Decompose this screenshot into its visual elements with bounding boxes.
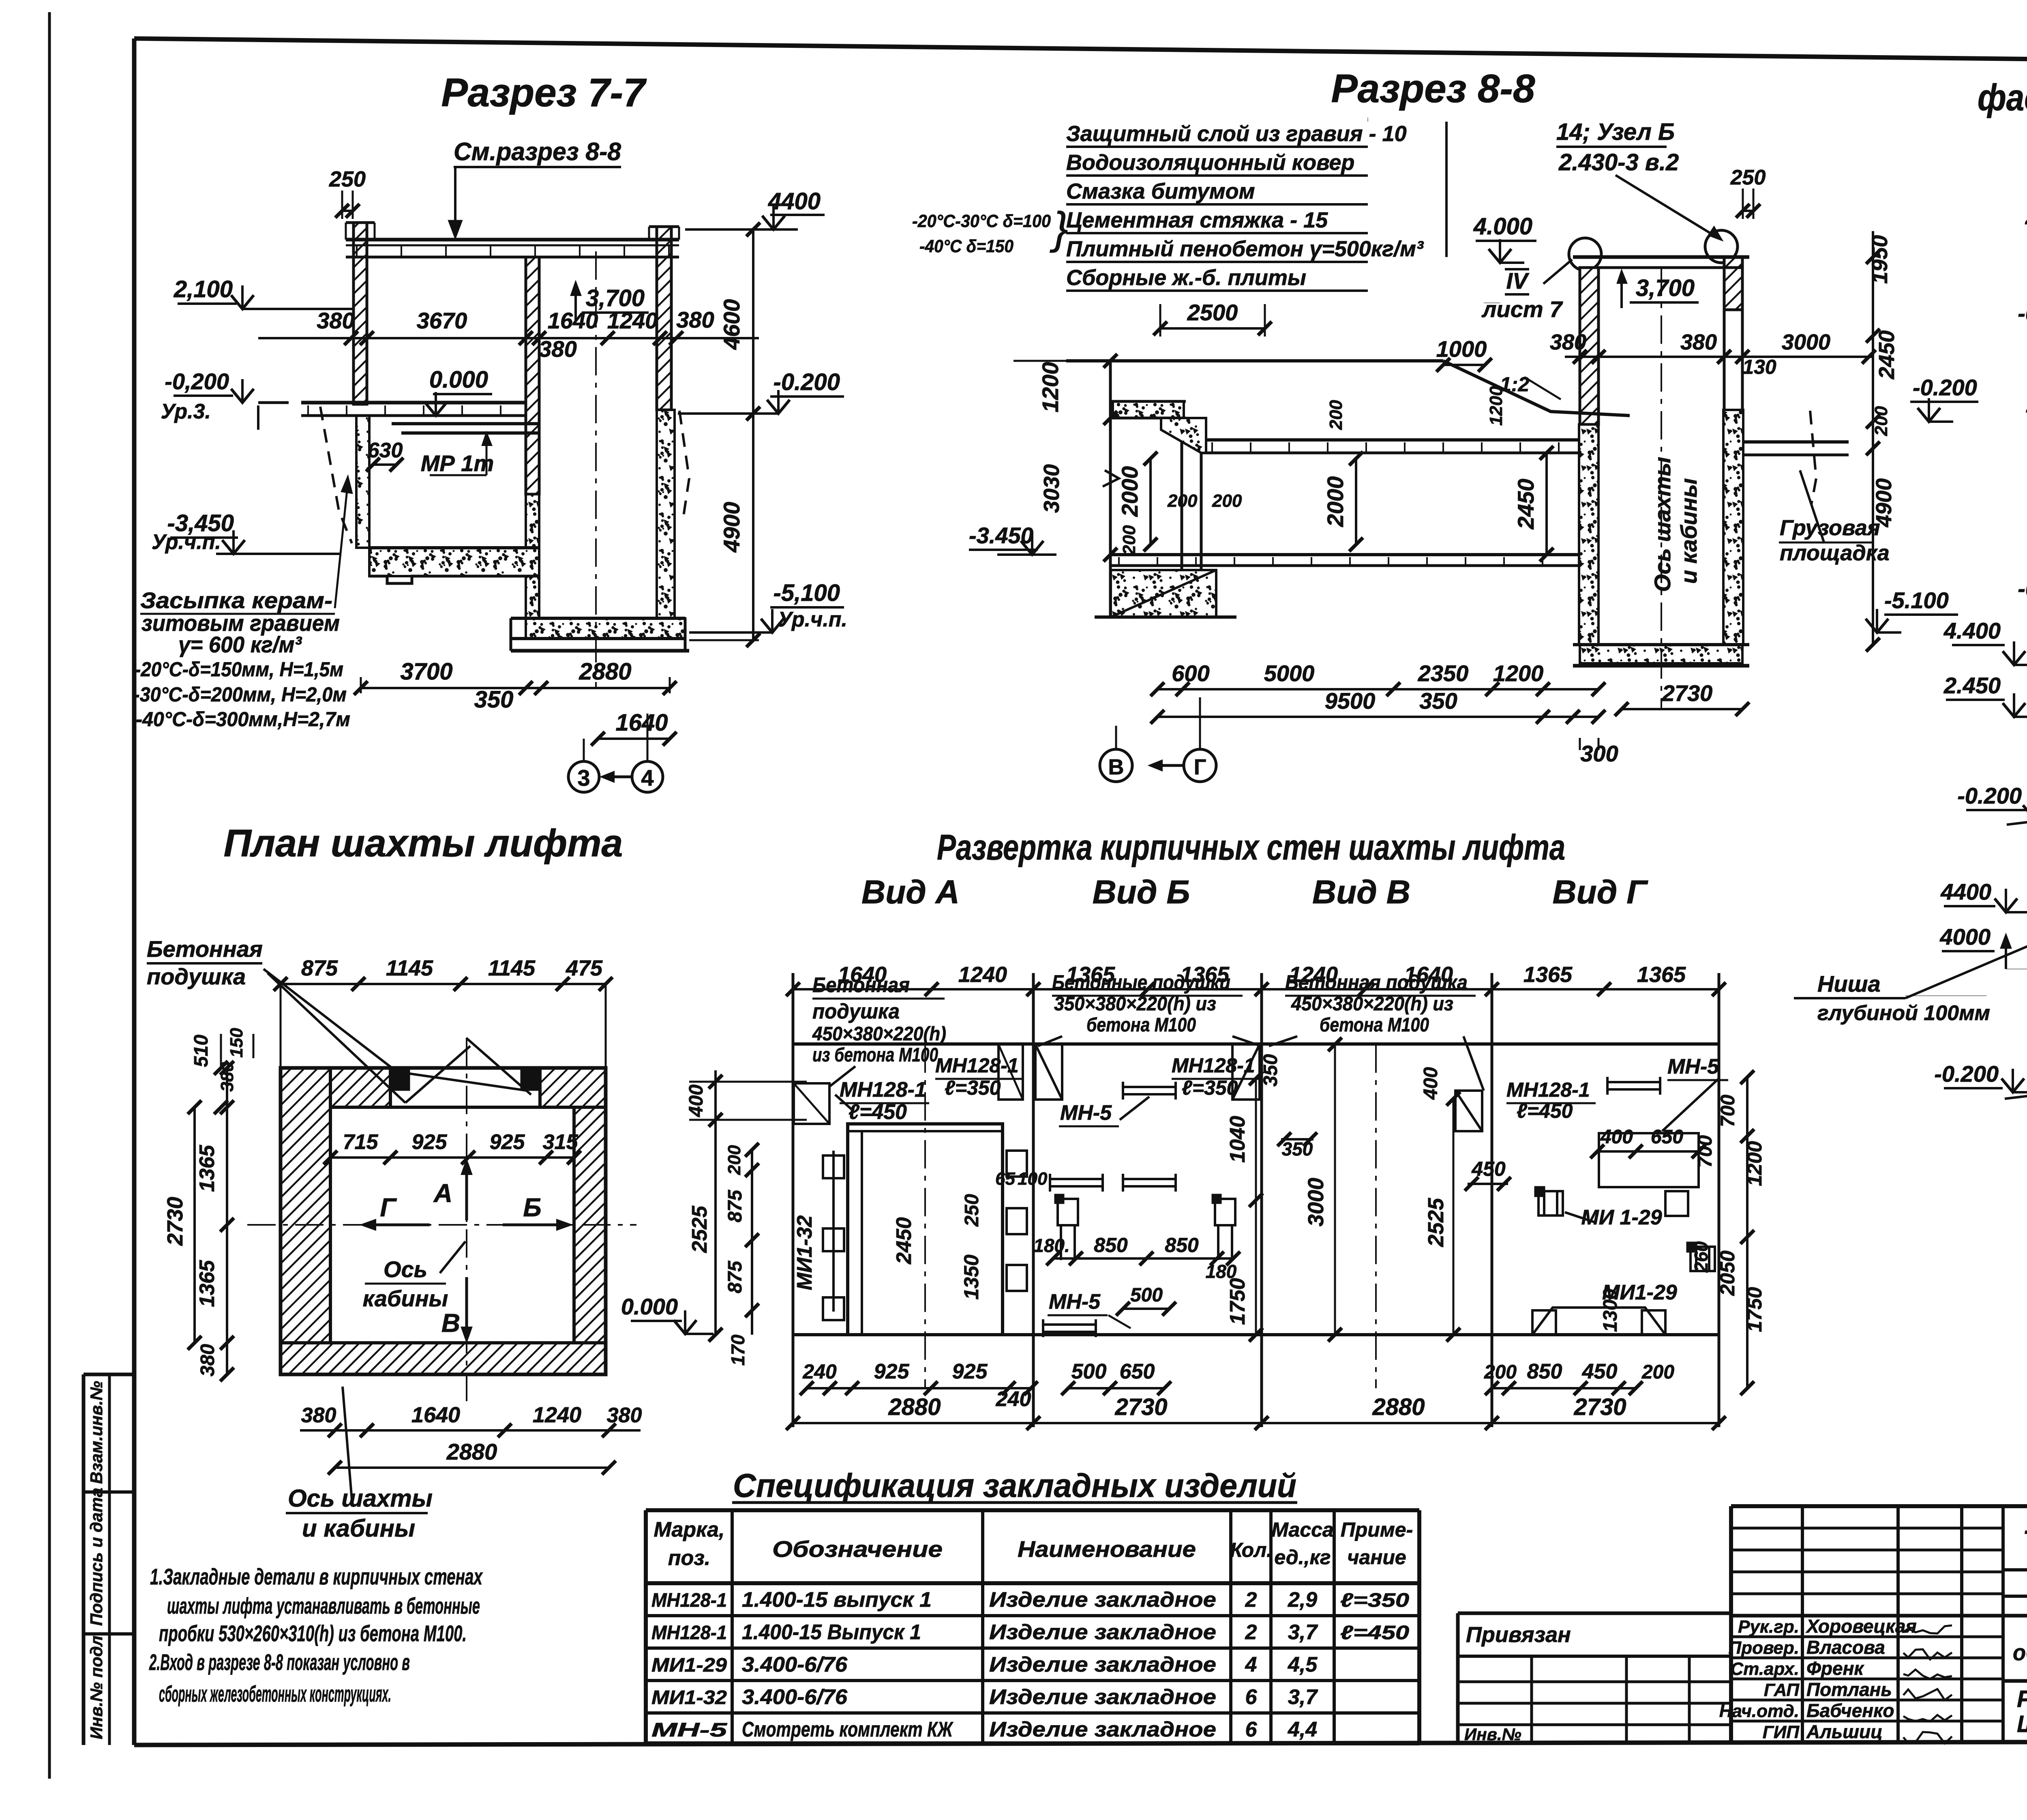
svg-text:200: 200 <box>1212 491 1242 511</box>
svg-text:380: 380 <box>607 1404 642 1427</box>
svg-text:4000: 4000 <box>1939 924 1991 950</box>
svg-text:Взам.инв.№: Взам.инв.№ <box>87 1381 106 1484</box>
svg-text:2730: 2730 <box>1573 1394 1626 1420</box>
svg-text:Хоровецкая: Хоровецкая <box>1805 1616 1917 1637</box>
svg-text:600: 600 <box>1172 660 1209 686</box>
svg-text:130: 130 <box>1742 356 1776 378</box>
svg-text:5000: 5000 <box>1264 660 1315 686</box>
svg-text:380: 380 <box>1550 330 1586 354</box>
svg-text:400: 400 <box>686 1085 707 1117</box>
svg-text:4,4: 4,4 <box>1288 1718 1317 1741</box>
svg-text:-5,100: -5,100 <box>774 580 840 606</box>
svg-text:450×380×220(h) из: 450×380×220(h) из <box>1291 993 1453 1015</box>
svg-text:1640: 1640 <box>615 710 668 736</box>
svg-text:1.Закладные детали в кирпичных: 1.Закладные детали в кирпичных стенах <box>150 1564 483 1589</box>
svg-text:1040: 1040 <box>1226 1116 1249 1163</box>
svg-text:200: 200 <box>1167 491 1198 511</box>
svg-text:2880: 2880 <box>579 658 631 685</box>
svg-text:1365: 1365 <box>195 1260 219 1307</box>
svg-text:1640: 1640 <box>838 963 887 987</box>
svg-text:6: 6 <box>1245 1685 1258 1709</box>
svg-text:2: 2 <box>1245 1621 1257 1644</box>
svg-text:Разрезы 7-7,8-8.: Разрезы 7-7,8-8. <box>2017 1686 2027 1712</box>
svg-text:2350: 2350 <box>1418 660 1469 686</box>
svg-text:Ур.ч.п.: Ур.ч.п. <box>152 530 221 554</box>
svg-text:Разрез 7-7: Разрез 7-7 <box>441 70 647 115</box>
svg-text:200: 200 <box>1119 525 1139 555</box>
svg-text:1.400-15 Выпуск 1: 1.400-15 Выпуск 1 <box>742 1621 921 1644</box>
svg-text:ℓ=450: ℓ=450 <box>1340 1622 1409 1644</box>
svg-text:380: 380 <box>317 308 354 333</box>
svg-text:4400: 4400 <box>768 188 821 214</box>
svg-text:ℓ=450: ℓ=450 <box>1517 1100 1573 1122</box>
svg-text:МН128-1: МН128-1 <box>1506 1078 1590 1101</box>
svg-text:подушка: подушка <box>812 1000 900 1023</box>
svg-text:2: 2 <box>1245 1588 1257 1612</box>
svg-text:1145: 1145 <box>386 956 433 980</box>
svg-text:4,5: 4,5 <box>1288 1653 1318 1676</box>
svg-text:2.100: 2.100 <box>2025 204 2027 229</box>
svg-text:3.400-6/76: 3.400-6/76 <box>742 1653 848 1676</box>
svg-text:0.000: 0.000 <box>429 367 488 393</box>
svg-text:6: 6 <box>1245 1718 1258 1741</box>
svg-text:2730: 2730 <box>163 1197 187 1246</box>
svg-text:Привязан: Привязан <box>1466 1623 1571 1647</box>
svg-text:925: 925 <box>490 1130 525 1154</box>
svg-text:200: 200 <box>1484 1361 1517 1383</box>
svg-text:200: 200 <box>1871 406 1891 436</box>
svg-text:МН128-1: МН128-1 <box>935 1054 1019 1077</box>
svg-text:700: 700 <box>1717 1095 1739 1127</box>
svg-text:3,700: 3,700 <box>1636 275 1695 301</box>
svg-text:МР 1т: МР 1т <box>421 450 494 476</box>
svg-text:875: 875 <box>724 1260 746 1293</box>
svg-text:150: 150 <box>227 1028 246 1058</box>
svg-text:2050: 2050 <box>1716 1250 1739 1296</box>
svg-text:Инв.№: Инв.№ <box>1464 1725 1521 1744</box>
svg-text:МН-5: МН-5 <box>651 1719 728 1741</box>
svg-text:ℓ=350: ℓ=350 <box>1182 1076 1238 1099</box>
svg-text:200: 200 <box>724 1145 744 1175</box>
svg-text:Смазка битумом: Смазка битумом <box>1066 179 1255 204</box>
svg-text:4900: 4900 <box>1872 478 1896 527</box>
svg-text:МН-5: МН-5 <box>1049 1290 1101 1314</box>
svg-text:-5.100: -5.100 <box>1884 587 1949 613</box>
svg-text:1300: 1300 <box>1600 1288 1621 1332</box>
svg-text:2450: 2450 <box>1513 479 1538 530</box>
svg-text:-0.200: -0.200 <box>1913 375 1977 400</box>
svg-text:-0.200: -0.200 <box>1957 783 2022 808</box>
svg-text:3: 3 <box>577 765 590 791</box>
svg-text:2880: 2880 <box>1372 1394 1425 1420</box>
svg-text:3000: 3000 <box>1782 330 1830 354</box>
svg-text:250: 250 <box>961 1194 983 1227</box>
svg-text:2525: 2525 <box>688 1205 711 1253</box>
svg-text:Разрез 8-8: Разрез 8-8 <box>1331 66 1535 111</box>
svg-text:14; Узел Б: 14; Узел Б <box>1556 119 1675 145</box>
svg-text:лист 7: лист 7 <box>1481 296 1564 322</box>
svg-text:-0.200: -0.200 <box>774 369 840 395</box>
svg-text:4.400: 4.400 <box>1943 618 2001 643</box>
svg-text:Вид Б: Вид Б <box>1093 874 1190 911</box>
svg-text:3,7: 3,7 <box>1288 1621 1318 1644</box>
svg-text:350×380×220(h) из: 350×380×220(h) из <box>1054 993 1216 1015</box>
svg-text:3670: 3670 <box>417 308 467 333</box>
svg-text:Смотреть комплект КЖ: Смотреть комплект КЖ <box>742 1718 954 1741</box>
svg-text:500: 500 <box>1130 1284 1163 1306</box>
svg-text:МИ 1-29: МИ 1-29 <box>1581 1206 1662 1229</box>
svg-text:Ст.арх.: Ст.арх. <box>1731 1659 1800 1679</box>
svg-text:МИ1-32: МИ1-32 <box>651 1687 727 1709</box>
svg-text:2,100: 2,100 <box>174 276 233 302</box>
svg-text:1950: 1950 <box>1868 235 1892 284</box>
svg-text:450: 450 <box>1582 1360 1618 1383</box>
svg-text:МИ1-32: МИ1-32 <box>793 1215 816 1291</box>
svg-text:2730: 2730 <box>1114 1394 1167 1420</box>
svg-text:3.400-6/76: 3.400-6/76 <box>742 1685 848 1709</box>
svg-text:-0,200: -0,200 <box>2018 300 2027 326</box>
svg-text:чание: чание <box>1347 1546 1406 1569</box>
svg-text:925: 925 <box>874 1360 910 1383</box>
svg-text:МН128-1: МН128-1 <box>1172 1054 1255 1077</box>
svg-text:Провер.: Провер. <box>1729 1638 1799 1658</box>
svg-text:Бетонные подушки: Бетонные подушки <box>1052 971 1230 994</box>
svg-text:2000: 2000 <box>1322 476 1348 527</box>
svg-text:2.Вход в разрезе 8-8 показан у: 2.Вход в разрезе 8-8 показан условно в <box>149 1649 410 1675</box>
svg-text:180.: 180. <box>1033 1235 1070 1256</box>
svg-text:План шахты лифта: План шахты лифта <box>224 822 623 865</box>
svg-text:925: 925 <box>412 1130 448 1154</box>
svg-text:ГАП: ГАП <box>1764 1680 1800 1700</box>
svg-text:-30°C-δ=200мм, H=2,0м: -30°C-δ=200мм, H=2,0м <box>133 683 347 706</box>
svg-text:2450: 2450 <box>1875 330 1899 379</box>
svg-text:250: 250 <box>329 167 366 191</box>
svg-text:4: 4 <box>641 765 654 791</box>
svg-text:Ур.3.: Ур.3. <box>161 400 211 423</box>
svg-text:Потлань: Потлань <box>1806 1679 1892 1700</box>
svg-text:1200: 1200 <box>1486 386 1506 426</box>
svg-text:1365: 1365 <box>1637 963 1686 987</box>
svg-text:650: 650 <box>1120 1360 1155 1383</box>
svg-text:2.430-3 в.2: 2.430-3 в.2 <box>1558 149 1679 176</box>
svg-text:2.450: 2.450 <box>1943 673 2001 698</box>
svg-text:3,7: 3,7 <box>1288 1685 1318 1709</box>
svg-text:и кабины: и кабины <box>1676 478 1701 584</box>
svg-text:Плитный пенобетон γ=500кг/м³: Плитный пенобетон γ=500кг/м³ <box>1066 237 1424 261</box>
svg-text:МН128-1: МН128-1 <box>840 1078 926 1102</box>
svg-text:поз.: поз. <box>668 1546 711 1570</box>
svg-text:-20°C-30°C δ=100: -20°C-30°C δ=100 <box>912 211 1051 231</box>
svg-text:Вид Г: Вид Г <box>1552 874 1648 911</box>
svg-text:-40°C-δ=300мм,H=2,7м: -40°C-δ=300мм,H=2,7м <box>136 708 350 731</box>
svg-text:-20°C-δ=150мм, H=1,5м: -20°C-δ=150мм, H=1,5м <box>135 658 343 681</box>
svg-text:630: 630 <box>368 439 403 462</box>
svg-text:850: 850 <box>1094 1234 1128 1256</box>
svg-text:4.000: 4.000 <box>1473 213 1532 240</box>
svg-text:Изделие закладное: Изделие закладное <box>989 1685 1216 1709</box>
svg-text:Наименование: Наименование <box>1018 1536 1196 1562</box>
svg-text:1200: 1200 <box>1037 362 1063 413</box>
svg-text:875: 875 <box>301 956 338 980</box>
svg-text:4600: 4600 <box>719 299 744 350</box>
svg-text:МИ1-29: МИ1-29 <box>651 1655 727 1676</box>
svg-text:Грузовая: Грузовая <box>1780 516 1880 540</box>
svg-text:Сборные ж.-б. плиты: Сборные ж.-б. плиты <box>1066 266 1306 290</box>
svg-text:850: 850 <box>1165 1234 1199 1256</box>
svg-text:Ось: Ось <box>384 1256 427 1282</box>
svg-text:Обозначение: Обозначение <box>772 1536 943 1562</box>
svg-text:850: 850 <box>1527 1360 1562 1383</box>
svg-text:В: В <box>441 1308 460 1338</box>
svg-text:Развертка кирпичных стен шахты: Развертка кирпичных стен шахты лифта <box>937 827 1565 867</box>
svg-text:315: 315 <box>543 1130 579 1154</box>
svg-text:1350: 1350 <box>960 1254 983 1299</box>
svg-text:ГИП: ГИП <box>1763 1722 1800 1742</box>
svg-text:ТП А-: ТП А- <box>2023 1525 2027 1556</box>
svg-text:ℓ=350: ℓ=350 <box>945 1076 1001 1099</box>
svg-text:4400: 4400 <box>1940 879 1991 905</box>
svg-text:Засыпка керам-: Засыпка керам- <box>140 587 332 613</box>
svg-text:240: 240 <box>996 1387 1031 1411</box>
svg-text:Власова: Власова <box>1806 1637 1885 1658</box>
svg-text:Ниша: Ниша <box>1817 971 1881 997</box>
svg-text:3000: 3000 <box>1304 1178 1328 1226</box>
svg-text:Г: Г <box>380 1193 397 1222</box>
svg-text:сборных железобетонных констру: сборных железобетонных конструкциях. <box>159 1681 391 1706</box>
svg-text:Френк: Френк <box>1806 1658 1864 1679</box>
svg-text:1750: 1750 <box>1743 1287 1766 1332</box>
svg-text:3700: 3700 <box>400 658 452 685</box>
svg-text:650: 650 <box>1651 1126 1683 1148</box>
svg-text:Г: Г <box>1194 755 1206 779</box>
svg-text:А: А <box>433 1179 452 1208</box>
svg-text:Бетонная подушка: Бетонная подушка <box>1285 971 1468 994</box>
svg-text:Рук.гр.: Рук.гр. <box>1738 1617 1799 1637</box>
svg-text:0.000: 0.000 <box>621 1294 678 1319</box>
svg-text:1750: 1750 <box>1226 1278 1249 1325</box>
svg-text:1640: 1640 <box>411 1403 460 1427</box>
svg-text:65: 65 <box>995 1169 1015 1189</box>
svg-text:бетона М100: бетона М100 <box>1086 1014 1196 1036</box>
svg-text:Изделие закладное: Изделие закладное <box>989 1718 1216 1741</box>
svg-text:1.400-15 выпуск 1: 1.400-15 выпуск 1 <box>742 1588 932 1612</box>
svg-text:и кабины: и кабины <box>302 1515 415 1542</box>
svg-text:200: 200 <box>1641 1361 1674 1383</box>
svg-text:1240: 1240 <box>533 1403 581 1427</box>
svg-text:фасады шахты лифта: фасады шахты лифта <box>1978 77 2027 118</box>
svg-text:кабины: кабины <box>363 1286 448 1311</box>
svg-text:МН-5: МН-5 <box>1667 1055 1719 1078</box>
svg-text:Ур.ч.п.: Ур.ч.п. <box>778 608 847 631</box>
svg-text:1200: 1200 <box>1743 1141 1766 1186</box>
svg-text:γ= 600 кг/м³: γ= 600 кг/м³ <box>178 632 302 657</box>
svg-text:700: 700 <box>1695 1135 1716 1168</box>
svg-text:1000: 1000 <box>1436 336 1487 362</box>
svg-text:пробки 530×260×310(h) из бетон: пробки 530×260×310(h) из бетона М100. <box>159 1621 467 1646</box>
svg-text:Шахта лифта.: Шахта лифта. <box>2017 1711 2027 1737</box>
svg-text:510: 510 <box>191 1035 212 1067</box>
svg-text:1640: 1640 <box>548 308 598 333</box>
svg-text:Вид А: Вид А <box>861 874 960 911</box>
svg-text:715: 715 <box>343 1130 379 1154</box>
svg-text:МН-5: МН-5 <box>1060 1101 1112 1125</box>
svg-text:Спецификация закладных изделий: Спецификация закладных изделий <box>733 1467 1296 1504</box>
svg-text:200: 200 <box>1326 400 1346 430</box>
svg-text:4: 4 <box>1245 1653 1257 1676</box>
svg-text:-40°C δ=150: -40°C δ=150 <box>919 236 1013 256</box>
svg-text:ℓ=450: ℓ=450 <box>849 1100 907 1124</box>
svg-text:450×380×220(h): 450×380×220(h) <box>812 1023 946 1045</box>
svg-text:шахты лифта устанавливать в бе: шахты лифта устанавливать в бетонные <box>167 1593 480 1618</box>
svg-text:Бабченко: Бабченко <box>1806 1700 1894 1721</box>
svg-text:Ось шахты: Ось шахты <box>1650 457 1675 592</box>
svg-text:925: 925 <box>952 1360 988 1383</box>
svg-text:350: 350 <box>1260 1054 1281 1087</box>
svg-text:9500: 9500 <box>1325 688 1376 714</box>
svg-text:2880: 2880 <box>446 1439 497 1464</box>
svg-text:Подпись и дата: Подпись и дата <box>87 1488 106 1626</box>
svg-text:бетона М100: бетона М100 <box>1320 1014 1429 1036</box>
svg-text:1240: 1240 <box>607 308 658 333</box>
svg-text:Б: Б <box>523 1193 541 1222</box>
svg-text:Изделие закладное: Изделие закладное <box>989 1588 1216 1612</box>
svg-text:Изделие закладное: Изделие закладное <box>989 1653 1216 1676</box>
svg-text:2450: 2450 <box>892 1217 916 1265</box>
svg-text:260: 260 <box>1691 1241 1712 1273</box>
svg-text:400: 400 <box>1600 1126 1633 1148</box>
svg-text:Альшиц: Альшиц <box>1806 1721 1883 1742</box>
svg-text:1145: 1145 <box>488 956 536 980</box>
svg-text:Инв.№ подл.: Инв.№ подл. <box>87 1631 106 1739</box>
svg-text:1200: 1200 <box>1493 660 1544 686</box>
svg-text:из бетона М100: из бетона М100 <box>812 1044 938 1066</box>
svg-text:4900: 4900 <box>719 502 744 553</box>
svg-text:Приме-: Приме- <box>1341 1518 1413 1541</box>
svg-text:См.разрез 8-8: См.разрез 8-8 <box>454 138 621 166</box>
svg-text:100: 100 <box>1018 1169 1048 1189</box>
svg-text:250: 250 <box>1730 166 1766 189</box>
svg-text:380: 380 <box>676 307 714 332</box>
svg-text:2000: 2000 <box>1117 466 1142 517</box>
svg-text:170: 170 <box>727 1334 748 1366</box>
svg-text:2730: 2730 <box>1662 680 1713 706</box>
svg-text:Нач.отд.: Нач.отд. <box>1719 1701 1799 1721</box>
svg-text:Вид В: Вид В <box>1312 874 1410 911</box>
svg-text:Водоизоляционный ковер: Водоизоляционный ковер <box>1066 150 1354 175</box>
svg-text:Марка,: Марка, <box>654 1518 725 1541</box>
svg-text:380: 380 <box>1680 330 1717 354</box>
svg-text:400: 400 <box>1420 1067 1442 1100</box>
svg-text:глубиной 100мм: глубиной 100мм <box>1817 1001 1990 1025</box>
svg-text:500: 500 <box>1071 1360 1107 1383</box>
svg-text:380: 380 <box>301 1404 336 1427</box>
svg-text:-0.200: -0.200 <box>2018 576 2027 601</box>
svg-text:Бетонная: Бетонная <box>147 936 263 962</box>
svg-text:МН128-1: МН128-1 <box>651 1590 727 1611</box>
svg-text:Масса: Масса <box>1271 1518 1334 1541</box>
svg-text:подушка: подушка <box>147 964 246 989</box>
svg-text:350: 350 <box>474 686 514 713</box>
svg-text:3030: 3030 <box>1039 464 1064 513</box>
svg-text:Цементная стяжка - 15: Цементная стяжка - 15 <box>1066 208 1328 232</box>
svg-text:380: 380 <box>539 336 576 362</box>
svg-text:2500: 2500 <box>1187 300 1238 325</box>
svg-text:IV: IV <box>1506 268 1530 294</box>
svg-text:380: 380 <box>197 1344 219 1376</box>
svg-text:475: 475 <box>566 956 603 980</box>
svg-text:Защитный слой из гравия - 10: Защитный слой из гравия - 10 <box>1066 122 1407 146</box>
svg-text:2880: 2880 <box>888 1394 941 1420</box>
svg-text:оборудования отдельно: оборудования отдельно <box>2013 1640 2027 1665</box>
svg-text:В: В <box>1108 755 1124 779</box>
svg-text:1365: 1365 <box>1523 963 1573 987</box>
svg-text:1240: 1240 <box>958 963 1007 987</box>
svg-text:240: 240 <box>802 1360 837 1383</box>
svg-text:Ось шахты: Ось шахты <box>288 1485 433 1512</box>
svg-text:2,9: 2,9 <box>1288 1588 1317 1612</box>
svg-text:1365: 1365 <box>195 1145 219 1192</box>
svg-text:ℓ=350: ℓ=350 <box>1340 1590 1409 1611</box>
svg-text:ед.,кг: ед.,кг <box>1274 1546 1331 1569</box>
svg-text:МН128-1: МН128-1 <box>651 1622 727 1644</box>
svg-text:Изделие закладное: Изделие закладное <box>989 1621 1216 1644</box>
svg-text:2525: 2525 <box>1424 1198 1448 1247</box>
svg-text:-0,200: -0,200 <box>165 369 229 394</box>
svg-text:350: 350 <box>1282 1138 1313 1160</box>
svg-text:875: 875 <box>724 1190 746 1222</box>
svg-text:350: 350 <box>1419 688 1457 714</box>
svg-text:Кол.: Кол. <box>1230 1539 1272 1561</box>
svg-text:-0.200: -0.200 <box>1934 1061 1999 1087</box>
